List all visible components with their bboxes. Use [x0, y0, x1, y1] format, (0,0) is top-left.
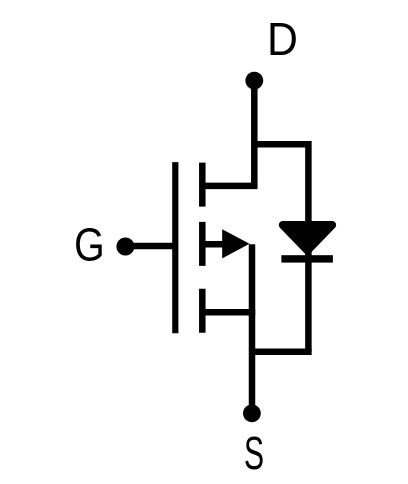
gate terminal dot: [116, 238, 134, 256]
svg-text:G: G: [74, 220, 105, 272]
body diode cathode bar: [281, 255, 333, 262]
MOSFET gate electrode (vertical plate): [172, 162, 178, 333]
wire: top branch to body diode: [254, 144, 308, 225]
body arrow (points to channel): [222, 229, 249, 258]
MOSFET channel bar: source segment: [199, 289, 206, 333]
label D (drain): [267, 15, 298, 66]
wire: drain stub to top channel bar: [202, 183, 257, 190]
wire: source vertical: [249, 244, 256, 413]
wire: diode cathode lead down: [305, 250, 312, 352]
source terminal dot: [243, 404, 261, 422]
body diode anode triangle: [283, 225, 332, 251]
wire: gate lead: [125, 243, 175, 250]
label S (source): [244, 429, 264, 480]
MOSFET channel bar: drain segment: [199, 163, 206, 207]
svg-text:D: D: [267, 15, 298, 66]
MOSFET channel bar: body segment: [199, 222, 206, 266]
wire: bottom branch from source to diode: [252, 348, 312, 355]
label G (gate): [74, 220, 105, 272]
svg-text:S: S: [244, 429, 264, 480]
wire: body stub into arrow: [202, 241, 228, 248]
wire: source stub to bottom channel bar: [202, 309, 255, 316]
wire: drain vertical: [251, 81, 258, 186]
drain terminal dot: [245, 72, 263, 90]
